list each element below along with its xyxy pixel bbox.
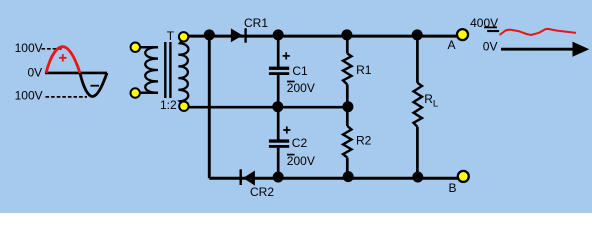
output 400V level tick (487, 30, 499, 32)
plus sign in positive half (59, 54, 66, 61)
resistor RL top wire (416, 36, 419, 83)
output terminal B (458, 171, 469, 182)
svg-text:B: B (449, 181, 457, 195)
capacitor C1 minus sign (287, 81, 295, 83)
junction node top rail at RL (412, 29, 423, 40)
junction node bottom rail at C2 (273, 172, 284, 183)
svg-text:100V: 100V (15, 88, 43, 102)
transformer primary top terminal (131, 43, 140, 52)
resistor R1 bottom wire (346, 85, 349, 108)
capacitor C1 plates (269, 67, 289, 70)
resistor RL zigzag (414, 83, 423, 127)
diode CR1 (231, 28, 247, 42)
middle rail wire from secondary bottom terminal to R1/R2 midpoint (184, 106, 348, 109)
transformer T primary top lead wire (135, 46, 158, 49)
capacitor C1 top wire (277, 36, 280, 67)
top rail wire from secondary top terminal to terminal A (184, 35, 458, 38)
capacitor C2 top wire (277, 107, 280, 140)
input waveform negative half sine (black) (80, 73, 107, 97)
svg-text:A: A (448, 38, 456, 52)
svg-text:0V: 0V (483, 40, 498, 54)
transformer secondary top terminal (179, 32, 188, 41)
capacitor C2 bottom wire (277, 148, 280, 178)
svg-text:100V: 100V (15, 41, 43, 55)
input waveform 0V axis (45, 72, 107, 75)
output terminal A (457, 29, 468, 40)
svg-text:200V: 200V (287, 154, 315, 168)
diode CR2 (240, 169, 255, 185)
junction node top rail at vertical branch (204, 29, 215, 40)
bottom rail wire (209, 177, 458, 180)
transformer core lines (164, 42, 166, 98)
capacitor C2 plus sign (283, 126, 290, 133)
svg-text:CR1: CR1 (244, 16, 268, 30)
input waveform top dashed level line (42, 48, 62, 50)
transformer T primary bottom lead wire (135, 92, 158, 95)
resistor RL bottom wire (416, 127, 419, 178)
input waveform positive half sine (red) (46, 47, 80, 73)
capacitor C2 plates (269, 139, 289, 142)
transformer primary bottom terminal (131, 88, 140, 97)
transformer T primary winding (145, 47, 158, 93)
svg-text:R1: R1 (356, 63, 372, 77)
svg-text:C2: C2 (292, 136, 308, 150)
capacitor C1 bottom wire (277, 75, 280, 107)
transformer T secondary winding (178, 39, 188, 105)
output 0V axis arrow (501, 48, 575, 51)
junction node middle rail at R1/R2 (342, 101, 353, 112)
svg-text:R2: R2 (356, 134, 372, 148)
svg-text:1:2: 1:2 (160, 98, 177, 112)
output ripple waveform (red) (500, 29, 577, 35)
resistor R2 top wire (346, 107, 349, 126)
transformer secondary bottom terminal (179, 102, 188, 111)
junction node top rail at R1 (341, 29, 352, 40)
minus sign in negative half (91, 85, 100, 87)
resistor R2 zigzag (343, 126, 352, 158)
capacitor C2 minus sign (287, 154, 295, 156)
junction node top rail at C1 (273, 29, 284, 40)
resistor R2 bottom wire (346, 158, 349, 179)
vertical wire from top rail to bottom rail (CR2 branch) (208, 36, 211, 178)
resistor R1 top wire (346, 36, 349, 53)
svg-text:0V: 0V (28, 66, 43, 80)
junction node middle rail at C1/C2 (272, 101, 283, 112)
svg-text:T: T (167, 29, 175, 43)
junction node bottom rail at RL (412, 172, 423, 183)
capacitor C1 plus sign (283, 52, 290, 59)
svg-text:200V: 200V (287, 81, 315, 95)
svg-text:C1: C1 (292, 64, 308, 78)
resistor R1 zigzag (343, 54, 352, 85)
input waveform bottom dashed level line (46, 96, 88, 98)
svg-text:CR2: CR2 (250, 185, 274, 199)
junction node bottom rail at R2 (343, 171, 354, 182)
output 400V underline (484, 26, 497, 28)
